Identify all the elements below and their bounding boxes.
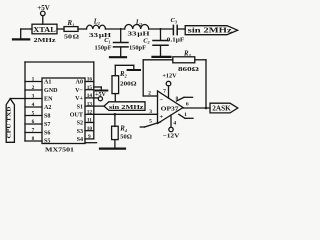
capacitor C2 150pF <box>153 29 168 56</box>
svg-text:C₃: C₃ <box>170 17 177 24</box>
pin separators right <box>85 82 94 139</box>
svg-text:150pF: 150pF <box>94 44 111 51</box>
node at C1 <box>120 28 122 30</box>
resistor R4 50ohm <box>112 114 119 148</box>
svg-text:4: 4 <box>32 102 35 108</box>
resistor R1 50ohm <box>64 27 78 32</box>
oscillator XTAL 2MHz <box>32 24 57 34</box>
wire EN to CPU TXD tag <box>10 98 25 100</box>
wire L2 to C3 with node <box>149 28 173 30</box>
svg-text:11: 11 <box>87 118 92 124</box>
svg-text:A1: A1 <box>44 79 51 85</box>
input tag sin 2MHz (to S1) <box>104 102 145 111</box>
pin 5 stub <box>140 122 160 127</box>
ground for R2 <box>128 69 140 71</box>
svg-text:200Ω: 200Ω <box>120 80 137 87</box>
svg-text:S2: S2 <box>77 121 83 127</box>
junction node R4 <box>114 113 117 116</box>
pin 6 output wire <box>183 107 210 109</box>
svg-text:6: 6 <box>186 101 189 107</box>
svg-text:15: 15 <box>87 85 93 91</box>
svg-text:+5V: +5V <box>95 92 106 98</box>
svg-text:S3: S3 <box>77 129 83 135</box>
ground under R4 <box>100 148 125 150</box>
inductor L2 33uH <box>125 25 149 30</box>
svg-text:sin 2MHz: sin 2MHz <box>188 28 232 35</box>
ground (left of XTAL) <box>13 38 29 40</box>
svg-text:2MHz: 2MHz <box>34 37 56 44</box>
svg-text:13: 13 <box>87 101 93 107</box>
svg-text:S8: S8 <box>44 113 50 119</box>
svg-text:7: 7 <box>32 128 35 134</box>
svg-text:V−: V− <box>75 88 83 94</box>
svg-text:4: 4 <box>173 120 176 126</box>
left pin numbers 1-8 <box>32 77 35 143</box>
svg-text:50Ω: 50Ω <box>120 134 132 141</box>
svg-text:V+: V+ <box>75 96 83 102</box>
svg-text:L₂: L₂ <box>135 19 143 26</box>
+5V terminal at pin 14 <box>94 97 103 101</box>
feedback wire from pin2 up <box>143 60 173 96</box>
resistor R3 860ohm <box>173 57 195 63</box>
output tag sin 2MHz (top right) <box>185 26 237 35</box>
right pin labels <box>70 80 84 143</box>
svg-text:2: 2 <box>148 91 151 97</box>
svg-text:7: 7 <box>163 89 166 95</box>
svg-text:R₂: R₂ <box>119 71 128 78</box>
svg-text:L₁: L₁ <box>93 19 101 26</box>
svg-text:+5V: +5V <box>37 4 50 12</box>
svg-text:MX7501: MX7501 <box>45 147 74 154</box>
svg-text:1: 1 <box>32 77 35 83</box>
wire OUT pin12 to op-amp pin3 <box>94 113 158 115</box>
wire XTAL to R1 <box>57 28 64 30</box>
capacitor C1 150pF <box>114 29 129 56</box>
svg-text:S7: S7 <box>44 122 50 128</box>
pin 7 wire to +12V <box>166 81 171 98</box>
svg-text:+: + <box>159 114 163 121</box>
wire XTAL left to ground <box>21 29 32 39</box>
svg-text:S5: S5 <box>44 138 50 144</box>
svg-text:A2: A2 <box>44 105 51 111</box>
CPU TXD tag <box>6 99 14 143</box>
svg-text:5: 5 <box>32 111 35 117</box>
ground under C2 <box>153 56 171 58</box>
svg-text:6: 6 <box>32 119 35 125</box>
svg-text:12: 12 <box>87 110 93 116</box>
svg-text:3: 3 <box>32 94 35 100</box>
svg-text:A0: A0 <box>76 80 83 86</box>
svg-text:0.1µF: 0.1µF <box>167 36 185 43</box>
svg-text:sin 2MHz: sin 2MHz <box>109 104 144 111</box>
svg-text:50 Ω: 50 Ω <box>64 34 79 41</box>
IC U1 MX7501 body <box>42 78 85 144</box>
left pin labels <box>44 79 58 144</box>
svg-text:−12V: −12V <box>163 132 181 139</box>
svg-text:5: 5 <box>149 119 152 125</box>
IC U1 MX7501 outer ladder <box>25 62 94 141</box>
pin 4 wire to -12V <box>169 115 173 132</box>
svg-text:OUT: OUT <box>70 113 83 119</box>
svg-text:2: 2 <box>32 85 35 91</box>
svg-text:C₁: C₁ <box>104 37 111 44</box>
svg-text:R₄: R₄ <box>119 125 127 132</box>
op-amp U2 OP37 <box>158 91 184 124</box>
pin 2 wire <box>143 95 157 97</box>
+5V supply terminal top <box>41 11 46 24</box>
svg-text:8: 8 <box>176 96 179 102</box>
svg-text:R₃: R₃ <box>183 51 192 58</box>
pin 8 stub <box>177 97 193 101</box>
svg-text:8: 8 <box>32 136 35 142</box>
svg-text:OP37: OP37 <box>161 106 180 113</box>
resistor R2 200ohm <box>112 65 134 102</box>
junction node output <box>205 107 208 110</box>
svg-text:CPU TXD: CPU TXD <box>7 107 13 139</box>
svg-text:S1: S1 <box>77 104 83 110</box>
svg-text:14: 14 <box>87 93 93 99</box>
svg-text:3: 3 <box>149 109 152 115</box>
svg-text:S6: S6 <box>44 130 50 136</box>
svg-text:1: 1 <box>184 112 187 118</box>
svg-text:−: − <box>159 97 163 104</box>
svg-text:XTAL: XTAL <box>33 26 56 34</box>
svg-text:R₁: R₁ <box>67 20 75 27</box>
svg-text:GND: GND <box>44 88 58 94</box>
wire R1 to L1 <box>78 28 87 30</box>
wire L1 to L2 with node <box>106 28 125 30</box>
output tag 2ASK <box>210 103 238 113</box>
svg-text:860Ω: 860Ω <box>178 66 199 73</box>
right pin numbers 16-9 <box>87 77 93 140</box>
ground under C1 <box>110 56 126 58</box>
node at C2 <box>160 28 162 30</box>
svg-text:S4: S4 <box>77 137 83 143</box>
svg-text:16: 16 <box>87 77 93 83</box>
wire pin13 to sin tag <box>94 105 104 107</box>
svg-text:EN: EN <box>44 96 53 102</box>
svg-text:150pF: 150pF <box>129 44 146 51</box>
svg-text:2ASK: 2ASK <box>212 106 231 113</box>
pin 9 stub line <box>85 142 97 144</box>
svg-text:+12V: +12V <box>162 72 177 79</box>
pin separators left <box>25 82 42 142</box>
ground at pin 15 <box>94 87 102 89</box>
svg-text:10: 10 <box>87 126 93 132</box>
inductor L1 33uH <box>87 25 106 29</box>
capacitor C3 0.1uF (series) <box>173 25 185 34</box>
feedback wire to output <box>195 60 206 108</box>
svg-text:9: 9 <box>88 134 91 140</box>
pin 1 stub <box>179 114 193 118</box>
